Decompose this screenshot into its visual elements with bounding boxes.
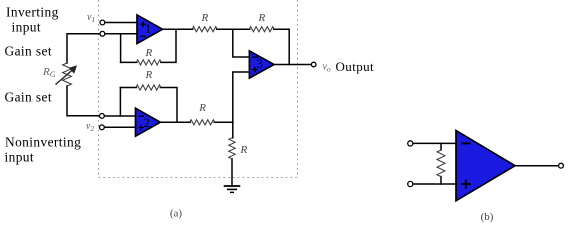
- svg-text:vo: vo: [323, 61, 331, 73]
- svg-text:R: R: [240, 144, 248, 156]
- svg-text:R: R: [198, 102, 206, 114]
- svg-text:(b): (b): [481, 211, 494, 223]
- svg-text:input: input: [12, 20, 42, 35]
- svg-text:Output: Output: [336, 59, 375, 74]
- svg-text:Gain set: Gain set: [5, 89, 52, 104]
- svg-text:(a): (a): [170, 208, 183, 220]
- svg-text:Gain set: Gain set: [5, 43, 52, 58]
- svg-text:R: R: [145, 47, 153, 59]
- svg-text:R: R: [201, 12, 209, 24]
- svg-text:Inverting: Inverting: [6, 5, 59, 20]
- svg-text:v1: v1: [87, 12, 95, 24]
- svg-text:input: input: [5, 150, 35, 165]
- svg-text:R: R: [145, 69, 153, 81]
- svg-text:v2: v2: [86, 121, 94, 133]
- svg-text:Noninverting: Noninverting: [5, 135, 81, 150]
- svg-text:RG: RG: [42, 66, 56, 79]
- svg-text:R: R: [258, 12, 266, 24]
- svg-text:3: 3: [257, 57, 263, 71]
- svg-text:2: 2: [144, 116, 150, 130]
- svg-text:1: 1: [145, 22, 151, 36]
